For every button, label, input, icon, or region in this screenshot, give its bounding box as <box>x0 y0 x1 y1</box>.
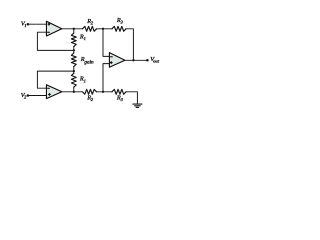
wire bottom rail <box>62 91 83 93</box>
wire chain top lead <box>73 29 75 33</box>
wire R2b to R3b <box>97 91 113 93</box>
wire chain R1b to bottom rail <box>73 87 75 92</box>
wire R3b to ground <box>126 92 137 104</box>
svg-text:3: 3 <box>121 97 124 102</box>
resistor Rgain <box>71 53 76 67</box>
node tap1 <box>73 49 75 51</box>
svg-text:2: 2 <box>91 21 94 26</box>
resistor R1 bottom <box>71 73 76 87</box>
node output feedback junction <box>132 59 134 61</box>
resistor R2 top <box>83 26 97 31</box>
op-amp U1 <box>46 21 61 36</box>
op-amp U3 <box>109 53 125 68</box>
node top rail junction <box>73 28 75 30</box>
label Rgain <box>80 56 94 66</box>
svg-text:2: 2 <box>24 95 27 100</box>
resistor R2 bottom <box>83 89 97 94</box>
wire U3 output <box>125 59 147 61</box>
resistor R3 bottom <box>112 89 126 94</box>
label V2 <box>21 92 27 100</box>
resistor R3 top <box>112 26 126 31</box>
node R2t R3t junction <box>102 28 104 30</box>
node V1 terminal <box>27 23 30 26</box>
label R3 top <box>116 17 124 25</box>
node tap2 <box>73 70 75 72</box>
label R1 top <box>79 33 86 41</box>
node R2b R3b junction <box>102 91 104 93</box>
wire chain R1t to tap1 <box>73 47 75 53</box>
svg-text:2: 2 <box>91 97 94 102</box>
wire chain Rgain to tap2 <box>73 67 75 74</box>
svg-text:out: out <box>153 59 160 64</box>
wire R2t to R3t <box>97 28 113 30</box>
wire U3 noninverting feed <box>103 64 109 92</box>
wire top rail <box>62 28 83 30</box>
ground <box>133 103 142 105</box>
op-amp U2 <box>46 85 61 99</box>
node bottom rail junction <box>73 91 75 93</box>
wire U2 feedback <box>37 71 73 88</box>
wire R3t to output feedback <box>126 29 133 61</box>
wire V1 input <box>28 23 47 25</box>
svg-text:gain: gain <box>84 59 94 65</box>
resistor R1 top <box>71 33 76 47</box>
wire U1 feedback <box>37 32 73 50</box>
wire U3 inverting feed <box>103 29 109 57</box>
node Vout terminal <box>146 59 149 62</box>
label V1 <box>21 20 27 28</box>
svg-text:3: 3 <box>121 20 124 25</box>
label Vout <box>150 56 159 64</box>
node V2 terminal <box>27 94 30 97</box>
label R2 top <box>86 18 94 26</box>
label R3 bottom <box>116 94 124 102</box>
svg-text:1: 1 <box>24 23 26 28</box>
svg-text:1: 1 <box>84 36 86 41</box>
wire V2 input <box>28 95 47 97</box>
label R2 bottom <box>86 95 94 103</box>
label R1 bottom <box>79 76 86 84</box>
svg-text:1: 1 <box>84 78 86 83</box>
